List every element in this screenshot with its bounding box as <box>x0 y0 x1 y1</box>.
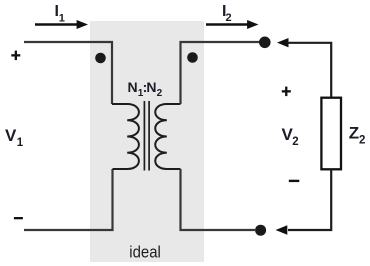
svg-text:Z: Z <box>349 123 359 142</box>
node: bottom output terminal <box>255 225 266 236</box>
label N1:N2 <box>128 79 163 99</box>
label I2 <box>222 3 232 24</box>
current arrowhead into bottom node <box>276 225 288 235</box>
polarity dot secondary <box>187 52 198 63</box>
svg-text:2: 2 <box>292 136 298 148</box>
svg-text:1: 1 <box>59 13 65 25</box>
label V2 <box>282 125 299 148</box>
minus sign primary <box>14 217 23 219</box>
svg-text:ideal: ideal <box>129 243 161 261</box>
plus sign secondary <box>282 87 291 97</box>
polarity dot primary <box>95 53 106 64</box>
current arrow I1 <box>35 20 88 29</box>
svg-text:V: V <box>5 126 17 145</box>
core line right <box>148 101 150 171</box>
svg-text:2: 2 <box>226 12 232 24</box>
label I1 <box>55 3 65 24</box>
svg-text:2: 2 <box>157 88 163 99</box>
wire: top link to Z2 <box>288 43 332 97</box>
primary winding L1 <box>112 104 139 169</box>
core line left <box>143 101 145 171</box>
wire: secondary top lead to output node <box>181 42 263 104</box>
wire: top-left feed from + terminal into primary top lead <box>24 42 112 104</box>
label Z2 <box>349 123 366 146</box>
minus sign secondary <box>289 180 300 182</box>
wire: bottom link from Z2 <box>288 169 331 230</box>
plus sign primary <box>11 51 20 61</box>
node: top output terminal <box>259 37 271 49</box>
label V1 <box>5 126 24 149</box>
wire: bottom node to secondary bottom lead <box>181 169 256 230</box>
svg-text:2: 2 <box>359 135 365 147</box>
svg-text:N: N <box>146 79 156 95</box>
ideal transformer shaded box <box>90 21 204 262</box>
wire: bottom-left return from - terminal to primary bottom lead <box>24 169 113 230</box>
current arrowhead into top node <box>277 38 289 47</box>
current arrow I2 <box>206 20 259 29</box>
impedance Z2 <box>321 98 341 170</box>
secondary winding L2 <box>155 104 180 169</box>
svg-text:N: N <box>128 79 138 95</box>
svg-text:1: 1 <box>17 137 24 149</box>
